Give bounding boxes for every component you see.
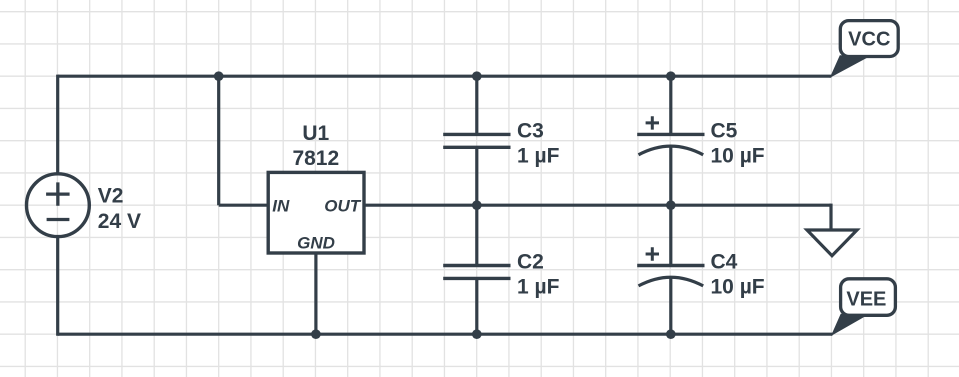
wire horizontal to U1 IN pin [219, 204, 270, 207]
wire C2 top lead [475, 205, 478, 265]
node VEE flag [833, 279, 896, 334]
capacitor C5 (polarized) [637, 116, 704, 155]
svg-text:VCC: VCC [848, 29, 890, 51]
wire U1 OUT to middle rail / ground corner [363, 204, 832, 207]
svg-text:C4: C4 [711, 251, 738, 274]
junction middle rail / C2-C3 [472, 200, 482, 210]
svg-text:IN: IN [272, 197, 290, 216]
svg-text:C5: C5 [711, 120, 738, 143]
svg-text:7812: 7812 [292, 147, 339, 170]
svg-text:V2: V2 [98, 184, 124, 207]
node VCC flag [831, 21, 898, 77]
svg-text:1 µF: 1 µF [517, 276, 560, 299]
wire C2 bottom lead [475, 278, 478, 334]
wire bottom rail (VEE net) [58, 333, 833, 336]
wire C5 bottom lead [669, 146, 672, 205]
wire vertical: top rail to U1 IN [217, 76, 220, 205]
svg-text:1 µF: 1 µF [517, 144, 560, 167]
svg-text:C3: C3 [517, 120, 544, 143]
wire ground stub [829, 204, 832, 230]
svg-text:OUT: OUT [324, 197, 362, 216]
capacitor C4 (polarized) [637, 247, 704, 286]
wire C3 top lead [475, 76, 478, 134]
voltage source V2 [27, 174, 90, 237]
wire left vertical: V2 - to bottom rail [56, 236, 59, 336]
capacitor C2 [443, 266, 510, 279]
wire C5 top lead [669, 76, 672, 134]
wire left vertical: top rail to V2 + [56, 75, 59, 175]
svg-text:24 V: 24 V [98, 210, 141, 233]
junction top rail / C5 [666, 71, 676, 81]
svg-text:10 µF: 10 µF [711, 144, 765, 167]
junction bottom rail / C2 [472, 329, 482, 339]
junction bottom rail / U1 GND [311, 329, 321, 339]
junction bottom rail / C4 [666, 329, 676, 339]
junction top rail / U1 IN branch [214, 71, 224, 81]
svg-text:10 µF: 10 µF [711, 276, 765, 299]
wire C4 bottom lead [669, 277, 672, 334]
wire top rail (VCC net) [58, 75, 832, 78]
ground symbol [807, 230, 857, 256]
wire C3 bottom lead [475, 147, 478, 205]
svg-text:U1: U1 [302, 122, 329, 145]
svg-text:VEE: VEE [846, 289, 886, 311]
wire C4 top lead [669, 205, 672, 265]
junction middle rail / C4-C5 [666, 200, 676, 210]
svg-text:GND: GND [297, 233, 335, 252]
capacitor C3 [443, 134, 510, 147]
junction top rail / C3 [472, 71, 482, 81]
op-amp U1 box (7812 regulator) [268, 172, 364, 253]
wire U1 GND pin down to bottom rail [314, 253, 317, 334]
svg-text:C2: C2 [517, 251, 544, 274]
